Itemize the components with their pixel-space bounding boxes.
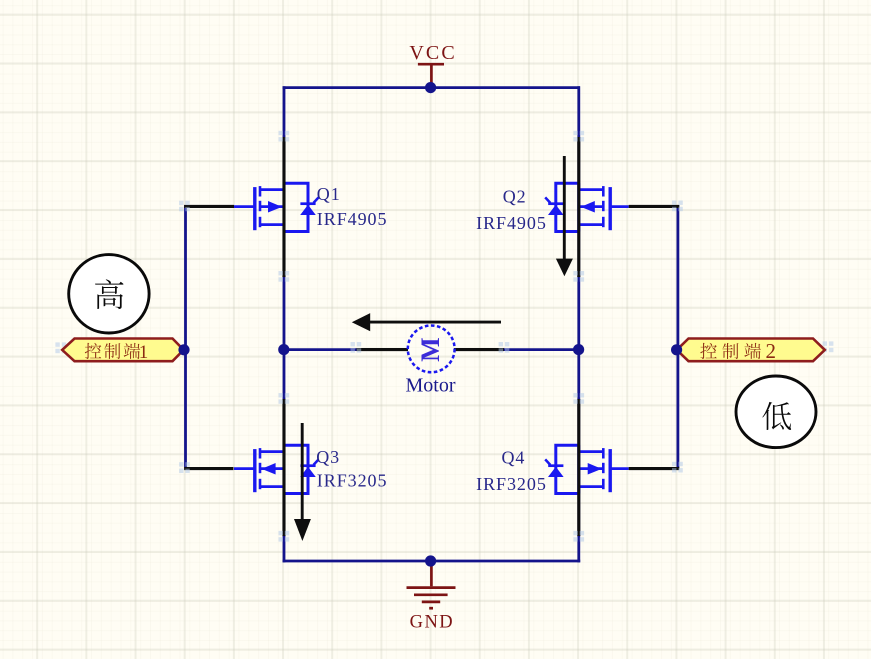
marker: Q4 gate corner: [672, 462, 683, 473]
junction: port1 / left gate bus: [178, 344, 189, 355]
marker: left rail upper break: [279, 131, 290, 142]
port 控制端1: [62, 339, 183, 362]
wire: mid rail right (navy): [503, 348, 580, 351]
svg-text:1: 1: [139, 342, 149, 363]
transistor Q4 (IRF3205): [545, 445, 629, 493]
wire: mid rail left (navy): [283, 348, 357, 351]
marker: right rail upper break: [573, 131, 584, 142]
junction: right mid node B: [573, 344, 584, 355]
svg-text:Q1: Q1: [317, 184, 341, 204]
annotation circle 高: [69, 255, 149, 333]
marker: right rail mid-upper break: [573, 271, 584, 282]
annotation arrow: current left through motor: [352, 313, 501, 331]
marker: port1 tip: [55, 342, 66, 353]
wire: Q3 gate black segment: [184, 467, 233, 470]
ground GND symbol: [407, 562, 456, 608]
annotation arrow: current down through Q3: [294, 423, 311, 541]
marker: Q3 gate corner: [179, 462, 190, 473]
wire: right rail black segment lower: [577, 399, 580, 536]
svg-text:Motor: Motor: [406, 375, 456, 397]
wire: right drain rail (navy): [577, 86, 580, 562]
marker: right rail lower break: [573, 531, 584, 542]
port 控制端2: [677, 339, 825, 362]
svg-text:IRF4905: IRF4905: [317, 209, 388, 229]
wire: Q4 gate black segment: [629, 467, 680, 470]
svg-text:Q2: Q2: [503, 187, 527, 207]
marker: left rail mid-upper break: [279, 271, 290, 282]
wire: Q2 gate black segment: [629, 205, 680, 208]
wire: left rail black segment upper: [282, 137, 285, 277]
junction: port2 / right gate bus: [671, 344, 682, 355]
svg-text:2: 2: [766, 339, 777, 363]
wire: left gate bus: [184, 205, 187, 469]
port label 控制端1 text: [85, 342, 148, 363]
annotation arrow: current down through Q2: [556, 156, 573, 276]
transistor Q2 (IRF4905): [545, 183, 629, 231]
svg-text:IRF3205: IRF3205: [476, 474, 547, 494]
motor M1 circle: [408, 326, 455, 373]
wire: motor left black segment: [357, 348, 409, 351]
junction: GND node: [425, 555, 436, 566]
wire: GND bottom rail: [283, 560, 581, 563]
svg-text:Q4: Q4: [501, 447, 525, 467]
svg-text:GND: GND: [410, 613, 454, 633]
marker: left rail lower break: [279, 531, 290, 542]
junction: VCC node: [425, 82, 436, 93]
transistor Q1 (IRF4905): [234, 183, 319, 231]
power VCC symbol: [418, 64, 444, 86]
wire: Q1 gate black segment: [184, 205, 234, 208]
wire: right gate bus: [677, 205, 680, 469]
svg-text:IRF4905: IRF4905: [476, 213, 547, 233]
marker: Q1 gate corner: [179, 201, 190, 212]
wire: left rail black segment lower: [282, 399, 285, 536]
annotation circle 低: [736, 376, 816, 448]
junction: left mid node A: [278, 344, 289, 355]
annotation text 低: [762, 402, 791, 430]
marker: right rail mid-lower break: [573, 393, 584, 404]
wire: right rail black segment upper: [577, 137, 580, 277]
marker: motor left break: [351, 342, 362, 353]
svg-text:Q3: Q3: [316, 447, 340, 467]
annotation text 高: [95, 279, 123, 309]
svg-text:IRF3205: IRF3205: [317, 471, 388, 491]
wire: VCC top rail: [283, 86, 580, 89]
marker: Q2 gate corner: [672, 201, 683, 212]
svg-text:M: M: [416, 337, 445, 362]
transistor Q3 (IRF3205): [234, 445, 319, 493]
marker: port2 tip: [823, 341, 834, 352]
wire: motor right black segment: [454, 348, 504, 351]
wire: left drain rail (navy): [283, 86, 286, 562]
svg-text:VCC: VCC: [409, 42, 455, 64]
port label 控制端2 text: [700, 339, 776, 363]
marker: motor right break: [499, 342, 510, 353]
marker: left rail mid-lower break: [279, 393, 290, 404]
